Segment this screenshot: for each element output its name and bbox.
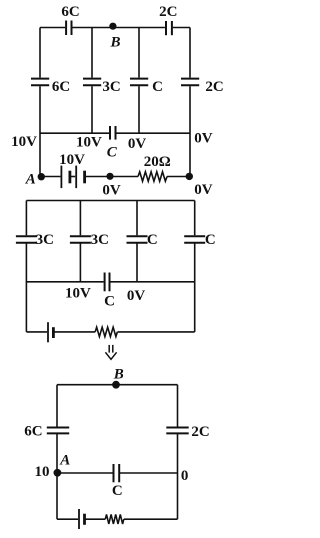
svg-text:0V: 0V xyxy=(194,182,213,198)
svg-text:3C: 3C xyxy=(36,232,54,248)
svg-text:10V: 10V xyxy=(76,134,102,150)
svg-text:2C: 2C xyxy=(191,424,209,440)
svg-text:6C: 6C xyxy=(61,4,79,20)
svg-text:B: B xyxy=(113,367,124,383)
svg-text:C: C xyxy=(152,79,163,95)
svg-text:C: C xyxy=(147,232,158,248)
svg-text:C: C xyxy=(107,145,118,161)
svg-text:6C: 6C xyxy=(24,424,42,440)
svg-text:0: 0 xyxy=(181,468,189,484)
svg-text:C: C xyxy=(205,232,216,248)
svg-text:10V: 10V xyxy=(59,152,85,168)
svg-text:10V: 10V xyxy=(65,286,91,302)
svg-text:A: A xyxy=(59,453,70,469)
svg-text:3C: 3C xyxy=(91,232,109,248)
svg-text:0V: 0V xyxy=(194,131,213,147)
svg-text:C: C xyxy=(104,294,115,310)
svg-text:2C: 2C xyxy=(205,79,223,95)
svg-text:10: 10 xyxy=(35,464,50,480)
svg-text:C: C xyxy=(112,483,123,499)
svg-text:0V: 0V xyxy=(127,288,146,304)
svg-text:10V: 10V xyxy=(11,134,37,150)
svg-text:6C: 6C xyxy=(52,79,70,95)
svg-text:3C: 3C xyxy=(102,79,120,95)
svg-text:20Ω: 20Ω xyxy=(144,154,171,170)
svg-text:2C: 2C xyxy=(159,4,177,20)
svg-text:0V: 0V xyxy=(102,183,121,199)
svg-text:0V: 0V xyxy=(128,136,147,152)
svg-text:B: B xyxy=(109,34,120,50)
svg-text:A: A xyxy=(25,172,36,188)
